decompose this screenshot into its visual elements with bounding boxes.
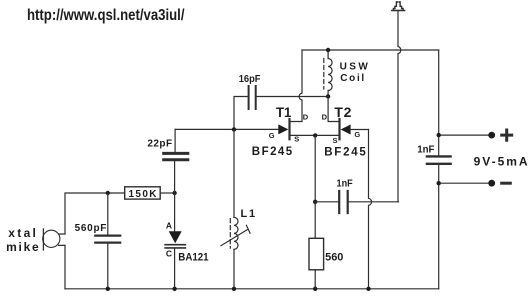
svg-text:S: S [294, 134, 299, 143]
wire mike top to 150K [65, 193, 125, 234]
svg-text:150K: 150K [129, 189, 158, 200]
svg-text:560: 560 [325, 252, 343, 264]
svg-text:D: D [322, 112, 328, 121]
microphone xtal mike [43, 229, 65, 289]
node rail T2 gate [366, 287, 370, 291]
label plus sign [502, 130, 512, 140]
wire 1nF coupling to antenna [315, 201, 398, 203]
capacitor C 22pF [164, 129, 188, 193]
diode varicap BA121 [165, 193, 185, 289]
node coil top [326, 48, 330, 52]
wire T1 drain riser (hops over 16pF wire) [291, 50, 303, 122]
resistor R 560 [309, 238, 324, 288]
node coil bottom [326, 94, 330, 98]
svg-text:G: G [269, 131, 275, 140]
wire 16pF net [234, 97, 328, 130]
terminal plus dot [488, 132, 495, 139]
svg-text:C: C [166, 248, 172, 258]
capacitor C 1nF bypass [427, 156, 451, 163]
resistor R 150K box [125, 187, 175, 199]
node 150K right / 22pF bottom [172, 191, 176, 195]
transistor Q T2 BF245 [315, 119, 368, 139]
capacitor C 16pF [249, 86, 256, 109]
node rail BA121 [172, 287, 176, 291]
wire source node down [314, 135, 316, 238]
wire antenna stem (hops over top rail) [398, 11, 401, 202]
label minus sign [502, 182, 511, 185]
capacitor C 560pF [95, 193, 120, 289]
svg-text:BF245: BF245 [324, 147, 366, 159]
svg-text:560pF: 560pF [75, 223, 107, 234]
svg-text:9V-5mA: 9V-5mA [474, 154, 528, 168]
svg-text:S: S [333, 136, 338, 145]
svg-text:16pF: 16pF [239, 74, 261, 85]
svg-text:T1: T1 [276, 104, 291, 120]
node T1 gate / L1 top [232, 127, 236, 131]
wire bottom ground rail [65, 288, 439, 290]
antenna ANT [392, 2, 405, 11]
wire T2 gate drop (hops over 1nF wire) [369, 130, 372, 289]
svg-text:BF245: BF245 [252, 146, 293, 158]
wire T2 drain [328, 96, 338, 121]
svg-text:1nF: 1nF [417, 144, 434, 155]
terminal minus dot [488, 180, 495, 187]
node 560pF top [106, 191, 110, 195]
svg-text:Coil: Coil [340, 73, 364, 84]
svg-text:T2: T2 [334, 104, 351, 120]
inductor L1 variable [221, 129, 250, 288]
svg-text:BA121: BA121 [178, 252, 208, 264]
wire plus lead [439, 134, 492, 136]
svg-text:USW: USW [340, 61, 369, 72]
node rail L1 [232, 287, 236, 291]
node rail 560 [313, 287, 317, 291]
svg-text:G: G [354, 130, 360, 139]
svg-text:1nF: 1nF [337, 178, 353, 189]
transistor Q T1 BF245 [175, 119, 315, 139]
label USW Coil [340, 61, 369, 84]
wire minus lead [439, 182, 492, 184]
node rail 560pF [106, 287, 110, 291]
inductor USW coil [324, 50, 332, 96]
svg-text:http://www.qsl.net/va3iul/: http://www.qsl.net/va3iul/ [27, 7, 185, 24]
node sources junction [313, 133, 317, 137]
label xtal mike [6, 226, 39, 254]
svg-text:22pF: 22pF [147, 139, 172, 150]
node plus tap [437, 133, 441, 137]
node minus tap [437, 181, 441, 185]
wire top rail +9V [302, 49, 439, 51]
svg-text:D: D [303, 112, 309, 121]
node 1nF tap [313, 200, 317, 204]
capacitor C 1nF coupling [339, 191, 348, 213]
wire battery rail right [438, 50, 440, 289]
svg-text:A: A [166, 220, 172, 230]
